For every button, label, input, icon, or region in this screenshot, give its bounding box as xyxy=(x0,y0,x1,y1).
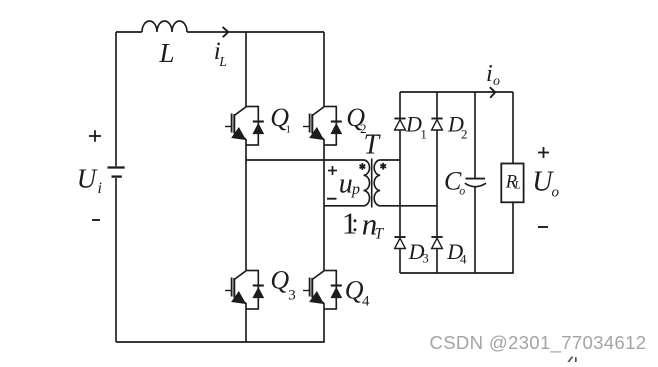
svg-text:3: 3 xyxy=(422,251,429,266)
svg-text:4: 4 xyxy=(460,252,467,267)
svg-text:p: p xyxy=(351,181,360,198)
svg-text:2: 2 xyxy=(461,127,468,142)
svg-text:u: u xyxy=(339,168,353,199)
svg-text:L: L xyxy=(513,180,520,192)
svg-text:i: i xyxy=(98,180,102,197)
svg-text:o: o xyxy=(552,185,560,201)
svg-text:1: 1 xyxy=(420,127,427,142)
svg-text:L: L xyxy=(159,38,175,68)
svg-text:4: 4 xyxy=(362,293,370,309)
svg-text:CSDN @2301_77034612: CSDN @2301_77034612 xyxy=(430,332,647,354)
svg-text:3: 3 xyxy=(288,288,296,304)
svg-text:o: o xyxy=(459,183,465,197)
svg-text::: : xyxy=(352,210,359,237)
svg-text:1: 1 xyxy=(286,123,292,135)
svg-text:L: L xyxy=(218,55,227,70)
svg-text:U: U xyxy=(77,163,98,193)
svg-text:T: T xyxy=(364,129,382,160)
svg-text:Q: Q xyxy=(270,266,289,295)
svg-text:Q: Q xyxy=(345,276,364,305)
svg-text:i: i xyxy=(486,61,493,87)
svg-text:T: T xyxy=(375,226,385,243)
svg-text:o: o xyxy=(493,74,500,89)
